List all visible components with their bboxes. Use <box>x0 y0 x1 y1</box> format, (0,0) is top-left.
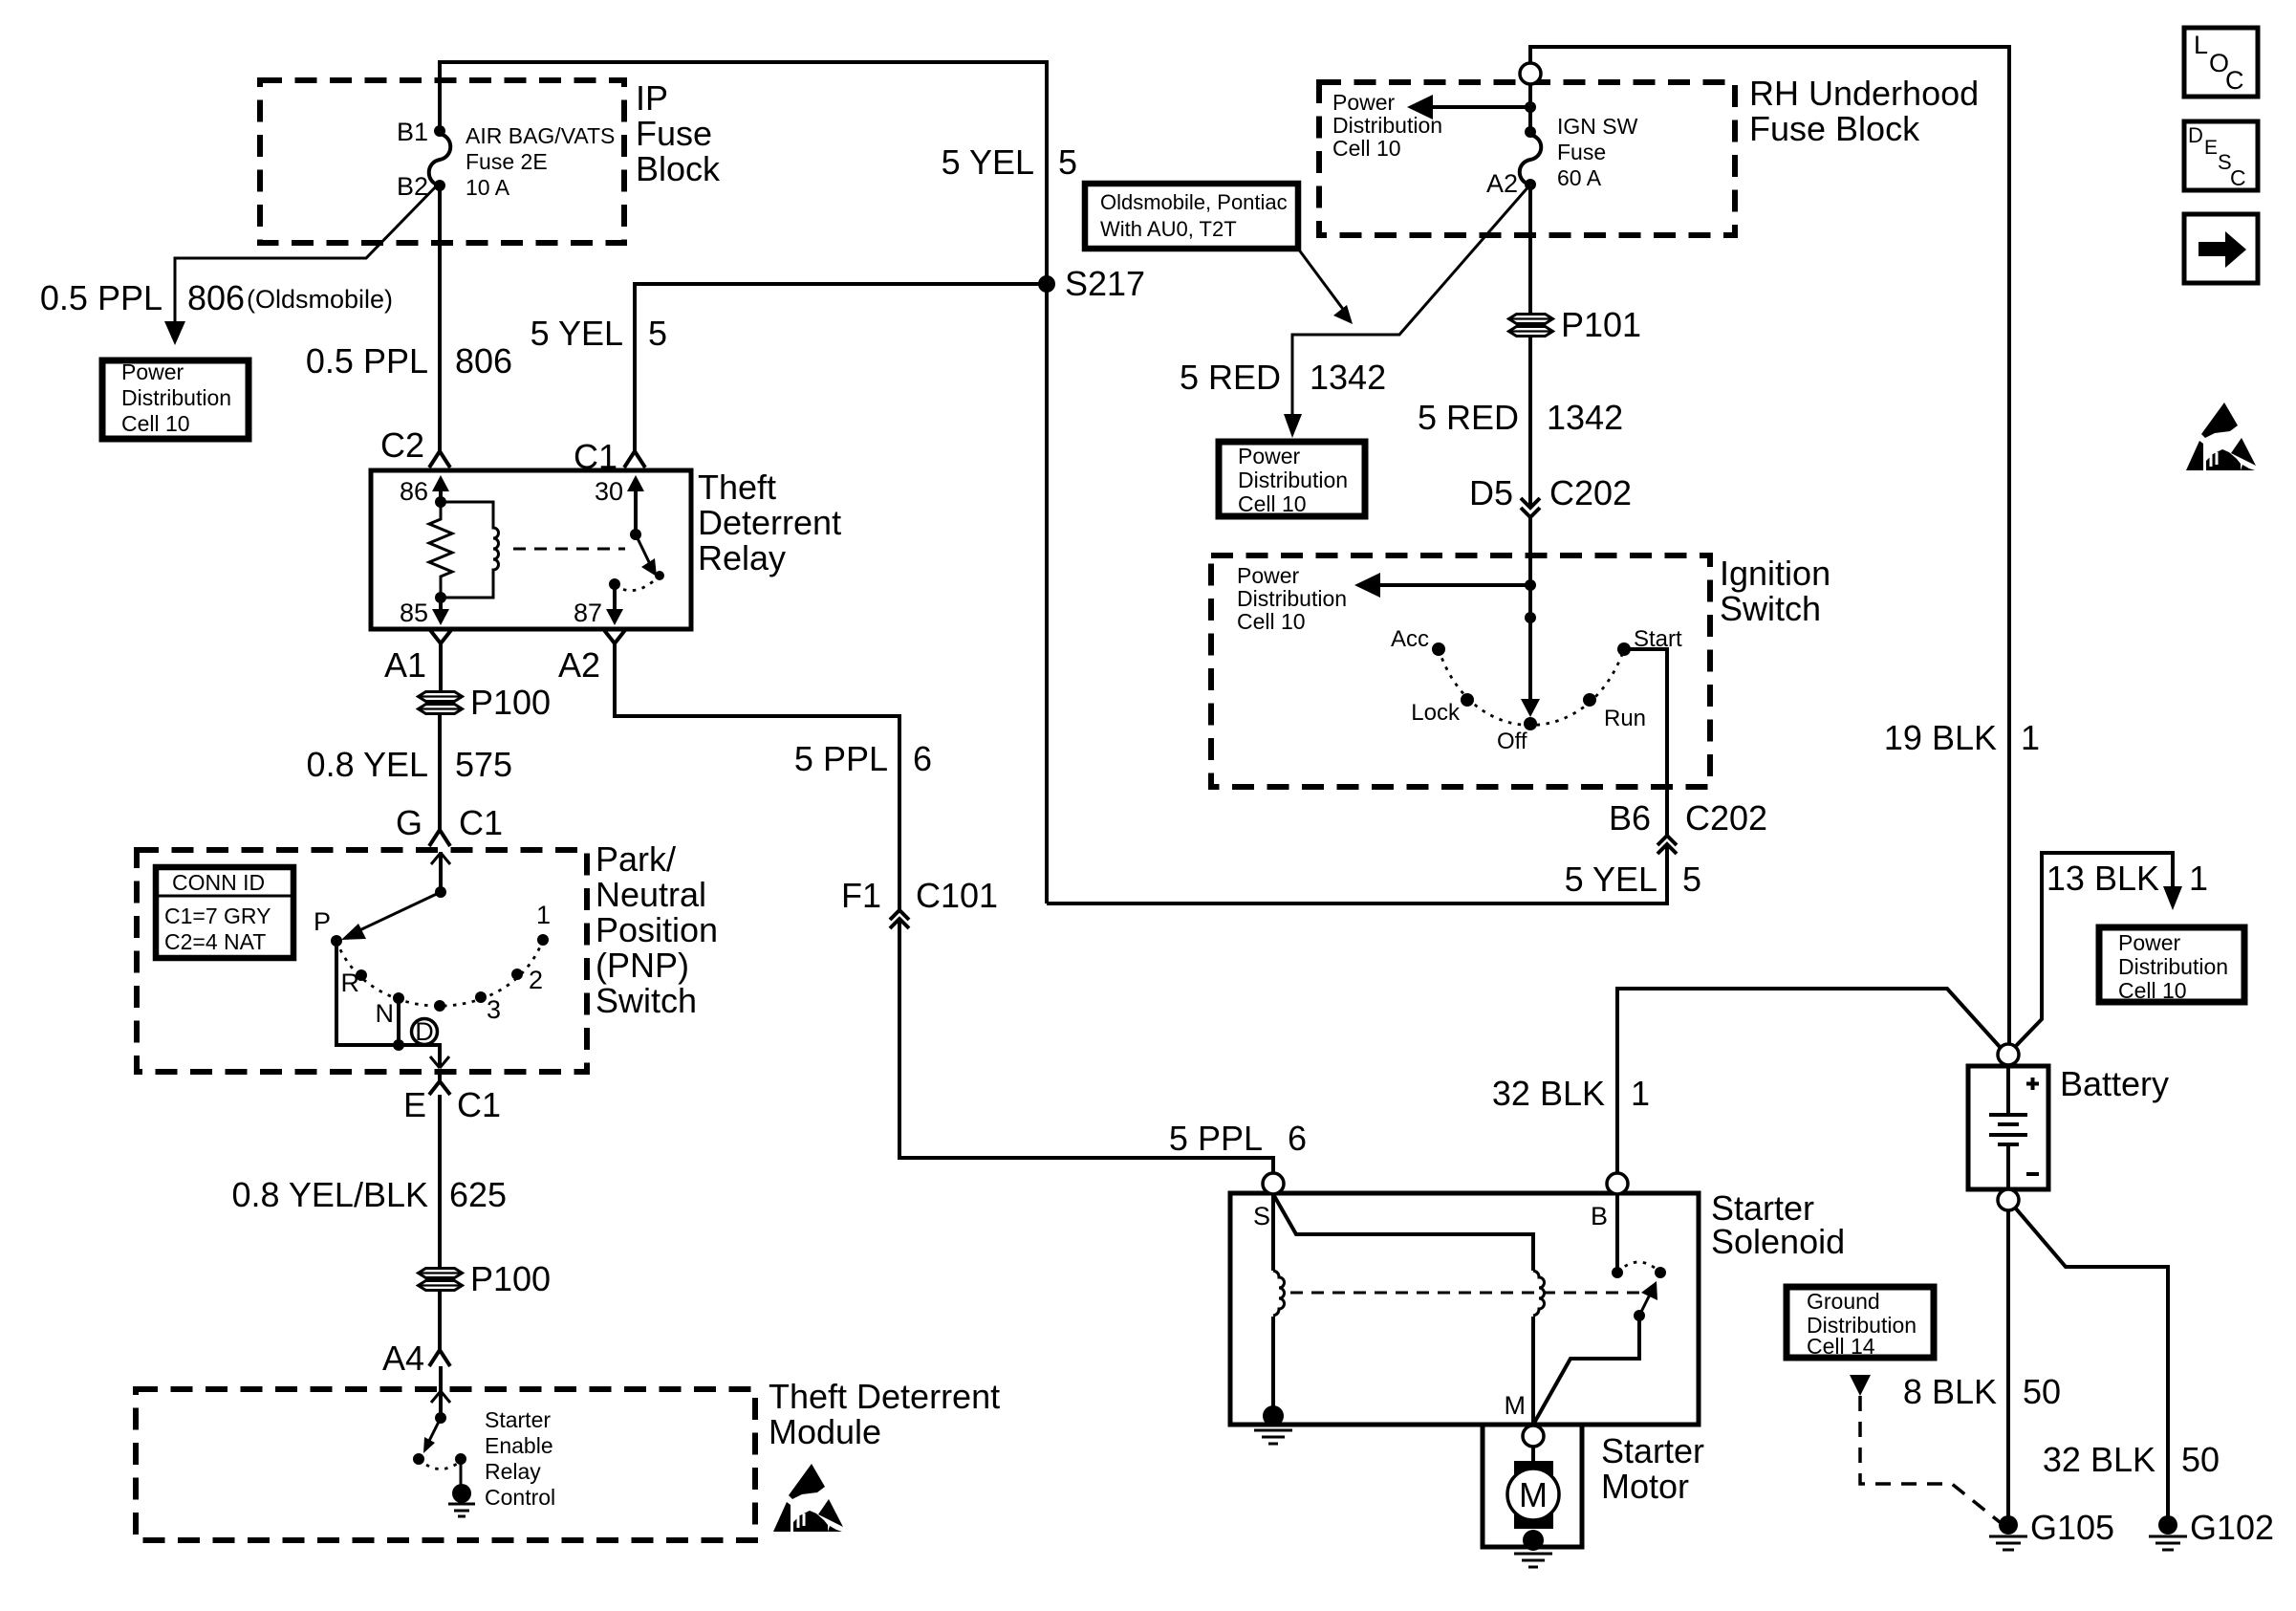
node: ignition feed junction 2 <box>1525 612 1536 623</box>
svg-text:5 RED: 5 RED <box>1418 398 1519 437</box>
node: starter enable relay control common <box>435 1412 446 1424</box>
node: coil/resistor bottom junction <box>435 592 446 603</box>
node B1 <box>434 125 445 137</box>
svg-text:Cell 10: Cell 10 <box>1237 609 1306 634</box>
wire: top bus to RH underhood fuse block and battery <box>1530 47 2009 1044</box>
label: IP Fuse Block <box>636 78 721 188</box>
wire label 5 YEL 5 (S217 drop) <box>942 142 1077 182</box>
internal ground (module) <box>460 1459 463 1488</box>
svg-text:10 A: 10 A <box>466 175 510 200</box>
svg-text:3: 3 <box>487 995 501 1024</box>
svg-text:C1: C1 <box>459 803 503 842</box>
svg-text:C101: C101 <box>916 876 998 915</box>
wire: A2 branch to power distribution (5 RED 1342) <box>1292 185 1530 428</box>
svg-text:86: 86 <box>400 477 428 506</box>
coil: solenoid right winding <box>1533 1271 1545 1316</box>
svg-text:(Oldsmobile): (Oldsmobile) <box>247 285 393 314</box>
svg-text:N: N <box>376 999 395 1028</box>
dotted contact arc (PNP) <box>336 940 543 1006</box>
Starter Motor housing <box>1483 1425 1582 1547</box>
svg-text:RH Underhood: RH Underhood <box>1749 74 1979 113</box>
svg-text:Motor: Motor <box>1601 1467 1689 1506</box>
node: blade tip contact <box>655 571 664 580</box>
battery box <box>1968 1066 2048 1189</box>
svg-text:S: S <box>1253 1202 1270 1230</box>
svg-text:Lock: Lock <box>1411 700 1461 726</box>
svg-text:G: G <box>396 803 422 842</box>
svg-text:R: R <box>341 969 360 997</box>
svg-text:P100: P100 <box>470 1259 551 1298</box>
svg-text:P101: P101 <box>1561 305 1641 344</box>
dashed throw arc (module switch) <box>419 1459 461 1469</box>
coil: solenoid left winding <box>1273 1271 1285 1316</box>
connector P100 (upper) <box>419 683 552 722</box>
wire: feed into IGN SW fuse <box>1528 84 1532 132</box>
ESD symbol (module) <box>773 1464 843 1532</box>
terminal S <box>1263 1173 1284 1194</box>
ground G105 <box>1999 1515 2018 1535</box>
node P <box>331 935 342 947</box>
dashed wire to G105 <box>1860 1396 2000 1522</box>
arrow from Ground Distribution callout <box>1850 1375 1871 1396</box>
svg-text:Fuse 2E: Fuse 2E <box>466 149 548 174</box>
svg-text:575: 575 <box>455 745 512 784</box>
box: Power Distribution Cell 10 (left) <box>102 360 249 439</box>
node: coil/resistor top junction <box>435 496 446 508</box>
svg-text:Control: Control <box>485 1485 555 1510</box>
svg-text:P100: P100 <box>470 683 551 722</box>
ground G102 <box>2158 1515 2177 1535</box>
icon: arrow box <box>2184 214 2258 283</box>
svg-text:5: 5 <box>648 314 667 353</box>
svg-text:Block: Block <box>636 149 721 188</box>
node: output junction <box>393 1039 404 1051</box>
svg-text:Power: Power <box>2118 930 2181 955</box>
svg-text:Power: Power <box>1238 444 1301 468</box>
battery B1: terminal + <box>1998 1044 2019 1065</box>
svg-text:B6: B6 <box>1609 798 1651 838</box>
svg-text:A2: A2 <box>1486 169 1518 198</box>
svg-text:Off: Off <box>1497 729 1527 754</box>
relay U1: Theft Deterrent Relay box <box>371 470 691 629</box>
Starter Solenoid box <box>1230 1193 1699 1425</box>
wire label 0.5 PPL 806 (Oldsmobile) <box>40 278 393 317</box>
node Off <box>1524 717 1537 730</box>
coil (relay) <box>441 502 499 598</box>
svg-text:806: 806 <box>455 341 512 381</box>
box: Power Distribution Cell 10 (middle) <box>1219 442 1365 516</box>
svg-text:30: 30 <box>595 477 623 506</box>
svg-text:625: 625 <box>449 1175 507 1214</box>
CONN ID legend box <box>156 867 293 958</box>
connector fork A4 <box>429 1350 450 1366</box>
svg-text:Distribution: Distribution <box>1238 468 1348 492</box>
wire label 0.5 PPL 806 <box>306 341 512 381</box>
pin 87 arrow out of relay <box>613 584 617 612</box>
svg-text:85: 85 <box>400 599 428 627</box>
label: Starter Enable Relay Control <box>485 1407 555 1510</box>
svg-text:IGN SW: IGN SW <box>1557 114 1638 139</box>
svg-text:5 RED: 5 RED <box>1180 358 1281 397</box>
node: ignition feed junction 1 <box>1525 579 1536 591</box>
connector D5 C202 (double chevron down) <box>1469 473 1632 517</box>
wire: top bus from IP fuse block B1 to S217 drop <box>440 62 1047 903</box>
svg-text:50: 50 <box>2023 1372 2061 1411</box>
exit arrow from PNP switch <box>438 1045 442 1068</box>
svg-text:5 YEL: 5 YEL <box>531 314 623 353</box>
svg-text:A4: A4 <box>382 1339 424 1378</box>
svg-text:Distribution: Distribution <box>1237 586 1347 611</box>
svg-text:Distribution: Distribution <box>1332 113 1442 138</box>
icon: LOC box <box>2184 28 2258 97</box>
svg-text:Switch: Switch <box>1720 589 1821 628</box>
label: IGN SW Fuse 60 A <box>1557 114 1638 190</box>
svg-text:Distribution: Distribution <box>2118 954 2228 979</box>
svg-text:Theft Deterrent: Theft Deterrent <box>769 1377 1000 1416</box>
svg-text:Enable: Enable <box>485 1433 553 1458</box>
svg-text:C: C <box>2230 165 2246 190</box>
connector fork E <box>429 1073 450 1095</box>
wire label 5 PPL 6 <box>794 739 932 778</box>
battery terminal - <box>1998 1189 2019 1210</box>
wire: key arrow to Off <box>1528 555 1532 703</box>
svg-text:1: 1 <box>2189 859 2208 898</box>
wire label 0.8 YEL/BLK 625 <box>232 1175 508 1214</box>
arrow to Power Distribution Cell 10 (ignition) <box>1372 583 1530 587</box>
svg-text:P: P <box>314 907 331 936</box>
terminal circle (fuse block feed) <box>1520 63 1541 84</box>
connector P100 (lower) <box>419 1259 552 1298</box>
node 3 <box>475 991 487 1003</box>
wire: B2 diagonal branch to power distribution arrow <box>175 183 440 325</box>
svg-text:F1: F1 <box>841 876 881 915</box>
connector fork A1 <box>430 630 451 643</box>
svg-text:Ground: Ground <box>1807 1289 1880 1314</box>
svg-text:E: E <box>2204 137 2218 159</box>
wire: A1 down to P100 <box>439 643 443 691</box>
ground node (solenoid) <box>1263 1405 1284 1426</box>
circled D label <box>412 1017 438 1046</box>
svg-text:Run: Run <box>1604 706 1646 731</box>
svg-text:32 BLK: 32 BLK <box>1492 1074 1605 1113</box>
dashed throw arc (relay switch) <box>615 576 660 591</box>
svg-text:32 BLK: 32 BLK <box>2043 1440 2155 1479</box>
svg-text:806: 806 <box>187 278 245 317</box>
ground node (motor) <box>1523 1530 1544 1551</box>
svg-text:Cell 10: Cell 10 <box>1238 491 1307 516</box>
connector B6 C202 (double chevron up) <box>1609 798 1767 854</box>
svg-text:Fuse: Fuse <box>1557 140 1606 164</box>
wire: blade pivot to M <box>1533 1316 1639 1425</box>
terminal M <box>1523 1426 1544 1447</box>
wire label 5 RED 1342 (main) <box>1418 398 1623 437</box>
svg-text:50: 50 <box>2181 1440 2220 1479</box>
PNP switch dashed box <box>137 850 587 1072</box>
wire: B2 down to relay C2 <box>438 185 442 451</box>
dashed throw arc (solenoid switch) <box>1617 1262 1660 1273</box>
svg-text:1: 1 <box>2021 718 2040 757</box>
svg-text:Position: Position <box>596 910 718 949</box>
svg-text:Cell 10: Cell 10 <box>2118 978 2187 1003</box>
motor brushes <box>1514 1461 1553 1479</box>
wire label 5 PPL 6 (lower) <box>1169 1119 1307 1158</box>
svg-text:Power: Power <box>121 359 184 384</box>
node: solenoid switch throw contact <box>1655 1267 1666 1278</box>
node B2 <box>434 180 445 191</box>
wire label 0.8 YEL 575 <box>307 745 513 784</box>
module switch blade <box>429 1418 441 1441</box>
svg-text:Neutral: Neutral <box>596 875 706 914</box>
svg-text:5 YEL: 5 YEL <box>1565 860 1657 899</box>
resistor (relay) <box>429 502 452 598</box>
svg-text:0.5 PPL: 0.5 PPL <box>40 278 162 317</box>
wire: M to motor <box>1531 1447 1535 1468</box>
node A2 (fuse output) <box>1525 179 1536 190</box>
wire: P and N to output <box>336 941 440 1056</box>
pin 86 arrow into relay <box>439 488 443 502</box>
svg-text:C2=4 NAT: C2=4 NAT <box>164 929 266 954</box>
connector fork G <box>429 830 450 846</box>
svg-text:C2: C2 <box>380 425 424 465</box>
label: Park/Neutral Position (PNP) Switch <box>596 839 718 1020</box>
ESD symbol (right) <box>2186 403 2256 470</box>
svg-text:A1: A1 <box>384 645 426 685</box>
wire: left winding to ground <box>1271 1317 1275 1415</box>
svg-text:E: E <box>403 1085 426 1124</box>
svg-text:5: 5 <box>1682 860 1701 899</box>
node R <box>356 969 367 981</box>
callout arrow <box>1298 249 1345 312</box>
svg-text:S217: S217 <box>1065 264 1145 303</box>
node 1 <box>537 934 549 946</box>
wire: relay A2 down and over to F1 <box>615 643 899 910</box>
node: solenoid blade pivot <box>1634 1310 1645 1321</box>
wire label 5 YEL 5 (left branch) <box>531 314 667 353</box>
svg-text:Distribution: Distribution <box>121 385 231 410</box>
terminal B <box>1607 1173 1628 1194</box>
wire: P100 down to module A4 <box>438 1291 442 1350</box>
wire label 19 BLK 1 <box>1884 718 2040 757</box>
svg-text:0.5 PPL: 0.5 PPL <box>306 341 428 381</box>
svg-text:IP: IP <box>636 78 668 118</box>
wire: E down to P100 lower <box>438 1095 442 1268</box>
svg-text:B: B <box>1591 1202 1608 1230</box>
svg-text:5 YEL: 5 YEL <box>942 142 1034 182</box>
connector fork C2 <box>429 451 450 468</box>
svg-text:Fuse: Fuse <box>636 114 712 153</box>
svg-text:0.8 YEL: 0.8 YEL <box>307 745 428 784</box>
wire: right winding to M terminal <box>1531 1317 1535 1426</box>
svg-text:C: C <box>2225 66 2244 95</box>
svg-text:Power: Power <box>1332 90 1396 115</box>
svg-text:1342: 1342 <box>1310 358 1386 397</box>
node Acc <box>1432 642 1445 656</box>
svg-text:Theft: Theft <box>698 468 776 507</box>
svg-text:Module: Module <box>769 1412 881 1451</box>
svg-text:G102: G102 <box>2190 1508 2274 1547</box>
svg-text:(PNP): (PNP) <box>596 946 689 985</box>
icon: DESC box <box>2184 121 2258 190</box>
label: Theft Deterrent Relay <box>698 468 841 577</box>
svg-text:Ignition: Ignition <box>1720 554 1830 593</box>
svg-text:C1: C1 <box>457 1085 501 1124</box>
box: Ground Distribution Cell 14 <box>1787 1287 1934 1358</box>
node D (on arc) <box>434 1000 445 1012</box>
arrow to Power Distribution Cell 10 (fuse block) <box>1424 105 1530 109</box>
node: switch pivot 30 <box>630 529 641 540</box>
svg-text:5 PPL: 5 PPL <box>1169 1119 1263 1158</box>
svg-text:13 BLK: 13 BLK <box>2047 859 2159 898</box>
svg-text:With AU0, T2T: With AU0, T2T <box>1100 217 1237 241</box>
fuse IGN SW 60 A (symbol) <box>1520 135 1542 185</box>
svg-text:Acc: Acc <box>1391 626 1429 652</box>
box: Power Distribution Cell 10 (right) <box>2099 927 2244 1002</box>
node: fuse feed junction <box>1525 101 1536 113</box>
svg-text:Solenoid: Solenoid <box>1711 1222 1845 1261</box>
wire: battery - to G105 <box>2006 1210 2010 1520</box>
RH underhood fuse block dashed box <box>1319 82 1735 235</box>
node Run <box>1583 693 1596 707</box>
svg-text:D: D <box>415 1017 434 1046</box>
dashed actuation link (relay) <box>513 548 625 551</box>
svg-text:B1: B1 <box>397 118 428 146</box>
arrowhead to power distribution cell 10 <box>164 321 185 345</box>
svg-text:Park/: Park/ <box>596 839 676 879</box>
svg-text:Oldsmobile, Pontiac: Oldsmobile, Pontiac <box>1100 190 1288 214</box>
wire: 32 BLK 1 from B to battery <box>1617 989 2001 1173</box>
svg-text:Battery: Battery <box>2060 1064 2169 1103</box>
node 2 <box>511 969 523 980</box>
svg-text:A2: A2 <box>558 645 600 685</box>
battery cells <box>2006 1066 2010 1115</box>
wire: Start down to B6 and across to S217 bus <box>1047 649 1667 903</box>
svg-text:1: 1 <box>536 901 551 929</box>
svg-text:8 BLK: 8 BLK <box>1903 1372 1997 1411</box>
svg-text:Starter: Starter <box>1601 1431 1704 1470</box>
svg-text:D: D <box>2188 123 2203 147</box>
Theft Deterrent Module dashed box <box>136 1389 755 1540</box>
connector fork C1 <box>624 451 645 468</box>
svg-text:60 A: 60 A <box>1557 165 1602 190</box>
node S217 <box>1038 275 1055 293</box>
svg-text:Cell 10: Cell 10 <box>1332 136 1401 161</box>
fuse AIR BAG/VATS 2E (symbol) <box>429 134 451 185</box>
svg-text:19 BLK: 19 BLK <box>1884 718 1997 757</box>
dotted contact arc (ignition) <box>1439 649 1624 726</box>
node: fixed contact <box>455 1453 466 1465</box>
svg-text:CONN ID: CONN ID <box>172 870 265 895</box>
node: solenoid switch B contact <box>1612 1267 1623 1278</box>
label: Starter Motor <box>1601 1431 1704 1506</box>
node N <box>393 992 404 1004</box>
node: blade contact <box>413 1453 424 1465</box>
svg-text:G105: G105 <box>2030 1508 2114 1547</box>
relay switch blade <box>636 534 650 564</box>
label: Ignition Switch <box>1720 554 1830 628</box>
svg-text:87: 87 <box>574 599 602 627</box>
IP fuse block dashed box <box>260 80 624 243</box>
svg-text:M: M <box>1505 1391 1527 1420</box>
wire: 13 BLK 1 to power distribution <box>2015 853 2173 1047</box>
label: Starter Solenoid <box>1711 1188 1845 1261</box>
svg-text:AIR BAG/VATS: AIR BAG/VATS <box>466 123 615 148</box>
svg-text:6: 6 <box>1288 1119 1307 1158</box>
svg-text:6: 6 <box>913 739 932 778</box>
svg-text:B2: B2 <box>397 172 428 201</box>
dashed actuation link (solenoid) <box>1290 1292 1639 1295</box>
node: PNP common <box>435 886 446 898</box>
wire: P100 down to PNP G <box>438 715 442 830</box>
svg-text:Starter: Starter <box>485 1407 551 1432</box>
svg-text:1342: 1342 <box>1547 398 1623 437</box>
svg-text:Deterrent: Deterrent <box>698 503 841 542</box>
svg-text:Fuse Block: Fuse Block <box>1749 109 1920 148</box>
svg-text:C202: C202 <box>1549 473 1632 512</box>
label: RH Underhood Fuse Block <box>1749 74 1979 148</box>
node Lock <box>1461 693 1474 707</box>
wire label 5 YEL 5 (start circuit) <box>1565 860 1701 899</box>
wire: battery - to G102 <box>2015 1208 2168 1520</box>
node Start <box>1617 642 1631 656</box>
pin 30 arrow into relay <box>634 489 638 533</box>
wire: F1 down to starter solenoid S <box>899 919 1273 1174</box>
svg-text:C202: C202 <box>1685 798 1767 838</box>
connector P101 <box>1509 305 1642 344</box>
motor M1 (armature) <box>1507 1469 1559 1520</box>
svg-text:Power: Power <box>1237 563 1300 588</box>
wire: S217 left branch down to relay C1 <box>635 284 1047 451</box>
svg-text:C1=7 GRY: C1=7 GRY <box>164 903 271 928</box>
entry arrow into module <box>439 1366 443 1418</box>
svg-text:5: 5 <box>1058 142 1077 182</box>
svg-text:Cell 14: Cell 14 <box>1807 1334 1875 1359</box>
PNP selector blade to P <box>356 892 441 932</box>
wire: S to pull-in winding <box>1273 1194 1533 1271</box>
solenoid switch blade <box>1639 1295 1650 1316</box>
svg-text:D5: D5 <box>1469 473 1513 512</box>
callout box: Oldsmobile, Pontiac With AU0, T2T <box>1085 184 1298 249</box>
svg-text:Relay: Relay <box>485 1459 541 1484</box>
node: 87 contact <box>609 578 620 590</box>
svg-text:L: L <box>2194 31 2208 59</box>
svg-text:Switch: Switch <box>596 981 697 1020</box>
connector F1 C101 (double chevron) <box>841 876 998 928</box>
svg-text:2: 2 <box>529 966 543 994</box>
label: Power Distribution Cell 10 (ignition) <box>1237 563 1347 634</box>
svg-text:0.8 YEL/BLK: 0.8 YEL/BLK <box>232 1175 429 1214</box>
label: Power Distribution Cell 10 (fuse block) <box>1332 90 1442 161</box>
Ignition Switch dashed box <box>1211 555 1710 787</box>
connector fork A2 <box>604 630 625 643</box>
svg-text:M: M <box>1519 1475 1548 1514</box>
svg-text:Cell 10: Cell 10 <box>121 411 190 436</box>
entry arrow into PNP switch <box>439 852 443 892</box>
wire: A2 down to P101 and ignition switch <box>1528 185 1532 555</box>
label: Theft Deterrent Module <box>769 1377 1000 1451</box>
label: AIR BAG/VATS Fuse 2E 10 A <box>466 123 615 200</box>
pin 85 arrow out of relay <box>439 598 443 612</box>
svg-text:1: 1 <box>1631 1074 1650 1113</box>
svg-text:Relay: Relay <box>698 538 786 577</box>
svg-text:5 PPL: 5 PPL <box>794 739 888 778</box>
